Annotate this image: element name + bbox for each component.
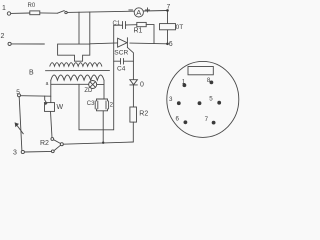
svg-text:R0: R0 [28, 3, 36, 9]
svg-text:7: 7 [167, 3, 171, 10]
svg-text:6: 6 [176, 116, 180, 123]
svg-text:R2: R2 [139, 111, 148, 118]
svg-text:3: 3 [13, 150, 17, 157]
svg-text:SCR: SCR [114, 50, 128, 57]
svg-text:1: 1 [182, 79, 186, 86]
svg-text:C1: C1 [113, 21, 121, 27]
svg-text:W: W [57, 104, 64, 111]
svg-text:C3: C3 [87, 101, 95, 107]
svg-text:a: a [46, 81, 49, 87]
svg-text:3: 3 [169, 96, 173, 103]
svg-text:6: 6 [169, 41, 173, 48]
svg-text:A: A [136, 8, 141, 17]
svg-text:0: 0 [140, 82, 144, 89]
svg-text:0T: 0T [176, 24, 184, 31]
svg-text:8: 8 [207, 77, 211, 84]
svg-text:ZD: ZD [84, 88, 93, 94]
svg-text:1: 1 [2, 5, 6, 12]
svg-text:5: 5 [16, 89, 20, 96]
svg-text:B: B [29, 70, 34, 77]
svg-text:C4: C4 [117, 66, 126, 73]
svg-text:R1: R1 [134, 28, 143, 35]
svg-text:R2: R2 [40, 140, 49, 147]
svg-text:2: 2 [1, 33, 5, 40]
svg-text:7: 7 [205, 116, 209, 123]
svg-text:5: 5 [209, 96, 213, 103]
